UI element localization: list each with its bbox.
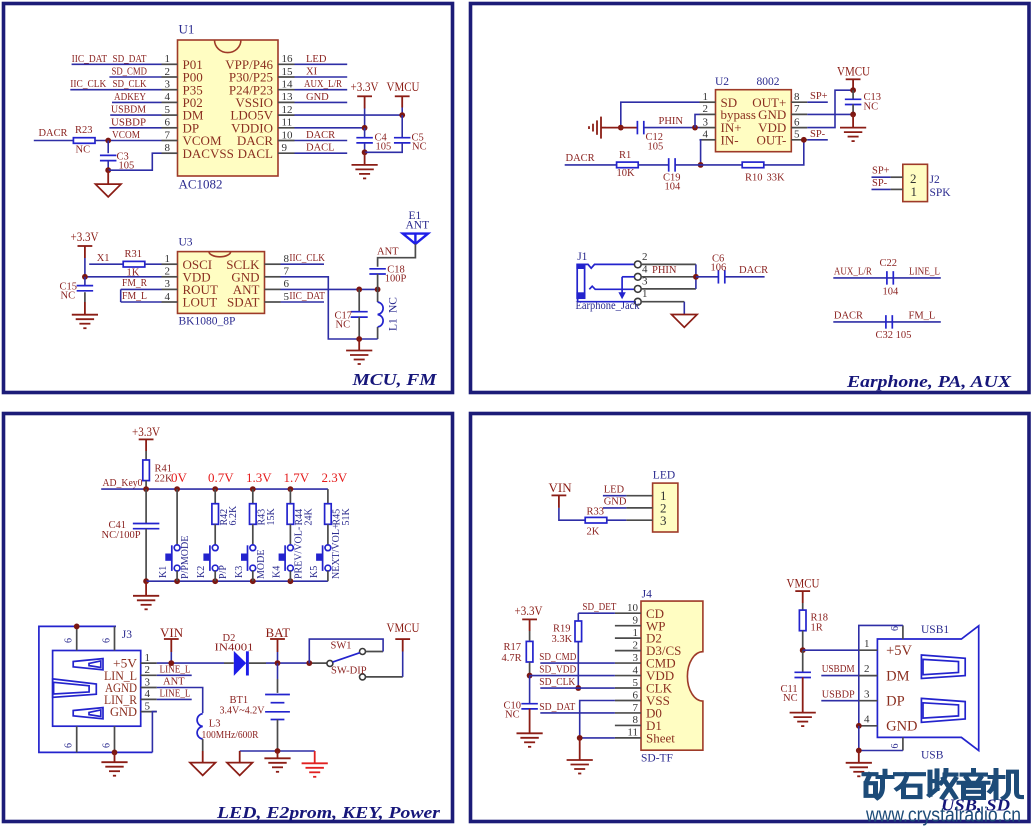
junction rail K4 — [288, 578, 294, 584]
svg-text:R19: R19 — [553, 624, 571, 635]
wire bus to R42 — [214, 489, 216, 504]
wire pin5 to gnd — [152, 712, 156, 753]
border frame panel 3 (LED,E2prom,KEY,Power) — [4, 414, 453, 822]
wire L3 to gnd — [202, 739, 204, 751]
svg-text:DACR: DACR — [834, 310, 863, 321]
wire gnd to C12 — [606, 127, 637, 129]
svg-text:Sheet: Sheet — [646, 731, 675, 746]
svg-text:IIC_CLK: IIC_CLK — [289, 253, 325, 264]
junction IN-/DACR — [698, 162, 704, 168]
svg-text:L1: L1 — [388, 318, 400, 331]
wire C17 top lead — [358, 289, 360, 311]
wire ADKEY bus — [101, 488, 328, 490]
J3 pin 5 stub — [141, 711, 157, 713]
svg-text:4: 4 — [864, 713, 870, 725]
svg-text:2: 2 — [703, 103, 709, 115]
svg-text:IN4001: IN4001 — [215, 643, 254, 654]
junction bus K1 — [174, 486, 180, 492]
svg-text:10: 10 — [627, 602, 639, 614]
junction BT1 rail — [275, 748, 281, 754]
op IC body U1 — [178, 40, 279, 176]
svg-text:LED: LED — [653, 469, 675, 481]
svg-text:105: 105 — [648, 142, 664, 153]
svg-text:NC: NC — [505, 710, 520, 721]
wire J1 pin3 right — [641, 288, 696, 290]
svg-text:51K: 51K — [341, 508, 352, 526]
wire net FM_R pin3 — [121, 288, 162, 290]
U2 pin 3 stub — [700, 127, 716, 129]
junction GND pin4 — [856, 723, 862, 729]
capacitor C22 — [886, 271, 888, 285]
svg-text:C22: C22 — [880, 258, 898, 269]
USB1 pin 1 stub — [859, 649, 878, 651]
svg-text:3: 3 — [633, 652, 639, 664]
wire net XI to R31 — [89, 263, 123, 265]
svg-text:NC: NC — [864, 101, 879, 112]
ground triangle J1 — [672, 315, 698, 328]
battery BT1 — [277, 663, 279, 679]
J1 pin 1 circle — [634, 298, 641, 305]
ground earth below C10 — [517, 732, 543, 734]
svg-text:1R: 1R — [811, 623, 823, 634]
svg-text:5: 5 — [145, 700, 151, 712]
wire +3.3V to pin2 VDD — [85, 276, 162, 278]
connector J3 shield box — [53, 651, 141, 727]
U2 pin 6 stub — [791, 127, 807, 129]
wire bus to R43 — [252, 489, 254, 504]
svg-text:PREV/VOL-: PREV/VOL- — [293, 527, 304, 579]
svg-text:R31: R31 — [125, 249, 143, 260]
svg-text:DM: DM — [886, 668, 909, 684]
svg-text:DACR: DACR — [566, 153, 595, 164]
J1 tip contact — [585, 264, 635, 268]
U2 pin 4 stub — [700, 139, 716, 141]
svg-text:LINE_L: LINE_L — [160, 689, 191, 700]
ground triangle L3 — [190, 763, 216, 776]
svg-text:AUX_L/R: AUX_L/R — [834, 266, 872, 277]
wire pin6 ANT — [281, 288, 378, 290]
svg-text:9: 9 — [633, 614, 639, 626]
svg-text:USBDP: USBDP — [822, 689, 855, 700]
svg-text:MODE: MODE — [256, 550, 267, 579]
svg-text:100MHz/600R: 100MHz/600R — [202, 730, 259, 741]
inductor L3 — [197, 714, 203, 739]
wire pin8 DACVSS to C3 — [108, 153, 161, 170]
U3 pin 4 stub — [162, 301, 178, 303]
svg-text:R33: R33 — [587, 507, 605, 518]
border frame panel 2 (Earphone,PA,AUX) — [471, 4, 1030, 393]
svg-text:2.3V: 2.3V — [322, 470, 348, 485]
U1 pin 1 stub — [162, 63, 178, 65]
junction SW1 — [306, 660, 312, 666]
junction BAT — [275, 660, 281, 666]
wire net IIC_DAT/SD_DAT pin1 — [72, 63, 162, 65]
J4 pin 1 stub — [615, 637, 641, 639]
svg-text:6.2K: 6.2K — [228, 505, 239, 526]
wire C19 to R10 — [675, 164, 742, 166]
svg-text:L3: L3 — [209, 719, 221, 730]
wire K3 to rail — [252, 571, 254, 582]
svg-text:5: 5 — [165, 104, 171, 116]
svg-text:BAT: BAT — [266, 625, 291, 640]
svg-text:K5: K5 — [309, 566, 320, 578]
J3 pin 2 stub — [141, 674, 157, 676]
wire net GND hdr — [603, 507, 627, 509]
capacitor C3 — [100, 154, 117, 156]
wire net SP+ to J2 — [872, 176, 891, 178]
ground earth J3 — [101, 761, 127, 763]
U1 pin 7 stub — [162, 140, 178, 142]
svg-text:SP-: SP- — [872, 178, 888, 189]
svg-text:3.3K: 3.3K — [552, 634, 573, 645]
svg-text:VMCU: VMCU — [387, 620, 421, 635]
svg-text:SP-: SP- — [810, 129, 826, 140]
junction gnd U3 — [356, 336, 362, 342]
junction bus K3 — [250, 486, 256, 492]
svg-text:U2: U2 — [715, 76, 729, 88]
svg-text:11: 11 — [627, 727, 638, 739]
svg-text:6: 6 — [890, 626, 901, 631]
wire BAT to SW1 — [309, 662, 327, 664]
USB1 contact trapezoid bottom — [921, 698, 965, 722]
wire net SP- to J2 — [872, 188, 891, 190]
svg-text:NEXT/VOL+: NEXT/VOL+ — [331, 523, 342, 579]
svg-text:R17: R17 — [504, 642, 522, 653]
svg-text:8: 8 — [633, 714, 639, 726]
wire pin2 bypass down — [695, 114, 700, 127]
U3 pin 2 stub — [162, 276, 178, 278]
svg-text:6: 6 — [165, 117, 171, 129]
wire net ADKEY pin4 — [112, 101, 162, 103]
svg-text:USBDM: USBDM — [111, 105, 147, 116]
svg-text:SD_DAT: SD_DAT — [113, 54, 148, 65]
svg-text:ADKEY: ADKEY — [114, 92, 146, 103]
wire net SD_CMD — [540, 662, 615, 664]
svg-text:+3.3V: +3.3V — [515, 603, 544, 618]
wire gnd stem below C13 — [852, 114, 854, 127]
wire C10 bottom lead — [529, 709, 531, 733]
J3 pin 3 stub — [141, 687, 157, 689]
USB1 bottom bracket — [859, 726, 903, 751]
earphone jack J1 body — [577, 264, 584, 298]
svg-text:P/PMODE: P/PMODE — [180, 536, 191, 579]
junction C13/GND wire — [850, 112, 856, 118]
ground earth below C4 — [352, 164, 378, 166]
svg-text:R23: R23 — [75, 125, 93, 136]
U2 pin 5 stub — [791, 139, 807, 141]
J3 contact trapezoid bottom — [73, 708, 103, 719]
junction J1/C6 — [693, 274, 699, 280]
wire R23 to pin7 VCOM — [95, 140, 162, 142]
resistor R45 — [325, 504, 332, 525]
svg-text:J1: J1 — [577, 251, 587, 263]
svg-text:+5V: +5V — [886, 643, 912, 659]
svg-text:7: 7 — [633, 702, 639, 714]
svg-text:R10: R10 — [745, 173, 763, 184]
wire net FM_L pin4 — [121, 301, 162, 303]
capacitor C32 — [885, 315, 887, 329]
wire VMCU down to C5 — [401, 115, 403, 138]
svg-text:1: 1 — [165, 53, 171, 65]
wire pin12 to VMCU — [295, 114, 403, 116]
wire net LED pin16 — [295, 63, 348, 65]
border frame panel 4 (USB,SD) — [471, 414, 1030, 822]
junction pin12/VMCU — [399, 112, 405, 118]
J3 shell pin top-right — [114, 626, 116, 650]
svg-text:4.7R: 4.7R — [502, 653, 522, 664]
U3 pin 8 stub — [265, 263, 281, 265]
wire pin1 SD loop — [621, 102, 700, 127]
ground earth below C13 — [840, 127, 866, 129]
connector LED header body — [653, 483, 678, 532]
junction bus R41 — [143, 486, 149, 492]
wire FM_R/FM_L left edge — [120, 289, 122, 302]
U3 pin 5 stub — [265, 301, 281, 303]
svg-text:33K: 33K — [767, 173, 786, 184]
U3 pin 7 stub — [265, 276, 281, 278]
U1 pin 13 stub — [278, 101, 295, 103]
svg-text:VIN: VIN — [160, 625, 184, 640]
svg-text:106: 106 — [711, 263, 727, 274]
LED hdr pin3 stub — [626, 519, 652, 521]
U3 pin 1 stub — [162, 263, 178, 265]
wire net SD_CLK — [540, 687, 615, 689]
wire antenna to C18 — [378, 244, 416, 267]
svg-text:USBDM: USBDM — [822, 664, 856, 675]
svg-text:XI: XI — [306, 67, 318, 78]
wire SD_DET corner to R19 — [577, 613, 579, 621]
wire net IIC_CLK pin8 — [281, 263, 325, 265]
wire R10 up to pin5 OUT- — [764, 140, 804, 165]
connector J3 outer bracket — [39, 626, 152, 752]
svg-text:3: 3 — [145, 676, 151, 688]
svg-text:DACR: DACR — [39, 128, 68, 139]
J3 shell pin bottom-left — [76, 726, 78, 752]
wire C15 top lead — [84, 277, 86, 286]
resistor R10 — [742, 162, 764, 168]
svg-text:GND: GND — [110, 704, 137, 719]
svg-text:2: 2 — [864, 663, 870, 675]
J1 pin 2 circle — [634, 261, 641, 268]
LED hdr pin1 stub — [626, 495, 652, 497]
svg-text:6: 6 — [284, 278, 290, 290]
J4 pin 6 stub — [615, 699, 641, 701]
svg-text:1: 1 — [864, 638, 870, 650]
wire pin7 GND to C13 — [807, 113, 853, 115]
J4 pin 5 stub — [615, 687, 641, 689]
svg-text:4: 4 — [165, 91, 171, 103]
junction C3/DACVSS — [105, 167, 111, 173]
wire net DACL pin9 — [295, 152, 348, 154]
svg-text:K3: K3 — [234, 566, 245, 578]
wire SW1 to VMCU — [366, 676, 403, 678]
svg-text:DP: DP — [886, 694, 905, 710]
junction R18/+5V — [800, 647, 806, 653]
wire VIN to R33 — [559, 508, 586, 520]
svg-text:AUX_L/R: AUX_L/R — [304, 79, 342, 90]
U1 pin 5 stub — [162, 114, 178, 116]
U1 pin 12 stub — [278, 114, 295, 116]
svg-text:4: 4 — [633, 664, 639, 676]
wire AUX_L/R to LINE_L — [833, 277, 941, 279]
switch K1 — [171, 545, 173, 571]
U1 pin 8 stub — [162, 152, 178, 154]
capacitor C18 — [369, 268, 386, 270]
svg-text:+3.3V: +3.3V — [132, 424, 161, 439]
wire J1 pin1 left — [577, 298, 579, 302]
svg-text:1: 1 — [165, 253, 171, 265]
ground earth below C11 — [790, 712, 816, 714]
wire C13 bottom lead — [852, 104, 854, 114]
svg-text:K4: K4 — [271, 566, 282, 578]
svg-text:10: 10 — [282, 129, 294, 141]
svg-text:12: 12 — [282, 104, 293, 116]
junction Sheet gnd — [577, 735, 583, 741]
J1 pin 3 circle — [634, 286, 641, 293]
wire J1 pin2 right — [641, 263, 696, 265]
U3 pin 6 stub — [265, 288, 281, 290]
wire net SP+ pin8 — [807, 101, 828, 103]
junction J3 gnd — [112, 750, 118, 756]
svg-text:GND: GND — [306, 92, 329, 103]
U1 pin 2 stub — [162, 76, 178, 78]
wire BT1 to bottom rail — [277, 720, 279, 752]
U2 pin 1 stub — [700, 101, 716, 103]
wire C17 bottom lead — [358, 317, 360, 339]
U1 pin 14 stub — [278, 89, 295, 91]
junction rail K3 — [250, 578, 256, 584]
USB1 pin 3 stub — [859, 700, 878, 702]
svg-text:GND: GND — [604, 497, 627, 508]
wire pin11 to +3.3V/C4 — [295, 127, 365, 129]
wire C11 top lead — [802, 650, 804, 672]
svg-text:FM_L: FM_L — [122, 291, 147, 302]
svg-text:VMCU: VMCU — [837, 63, 871, 78]
J3 pin 1 stub — [141, 662, 157, 664]
svg-text:+3.3V: +3.3V — [71, 229, 100, 244]
wire bus to K1 — [176, 489, 178, 545]
svg-text:6: 6 — [794, 116, 800, 128]
op IC body U3 — [178, 252, 265, 314]
wire R44 to K4 — [289, 524, 291, 545]
wire bus to R44 — [289, 489, 291, 504]
capacitor C41 — [133, 523, 160, 525]
svg-text:9: 9 — [282, 142, 288, 154]
capacitor C4 — [356, 137, 373, 139]
ground earth rotated left — [600, 117, 602, 139]
switch K4 — [284, 545, 286, 571]
wire gnd stem USB — [858, 751, 860, 763]
svg-text:0V: 0V — [171, 470, 188, 485]
capacitor C12 — [636, 121, 638, 135]
switch K5 — [322, 545, 324, 571]
svg-text:LINE_L: LINE_L — [909, 266, 940, 277]
svg-text:SP+: SP+ — [810, 91, 828, 102]
junction pin11/+3.3V — [362, 125, 368, 131]
wire net SD_DAT — [540, 712, 615, 714]
antenna E1 — [403, 234, 428, 244]
svg-text:2: 2 — [165, 266, 171, 278]
svg-text:6: 6 — [101, 743, 112, 748]
capacitor C10 — [521, 703, 538, 705]
svg-text:SD_CMD: SD_CMD — [112, 67, 148, 78]
op IC U1 notch — [215, 40, 241, 53]
resistor R23 — [73, 138, 95, 144]
wire net AUX_L/R pin14 — [295, 89, 348, 91]
svg-text:NC: NC — [76, 145, 91, 156]
wire R41 to bus — [145, 481, 147, 490]
wire K5 to rail — [327, 571, 329, 582]
svg-text:104: 104 — [883, 287, 900, 298]
svg-text:U3: U3 — [179, 237, 193, 249]
ground earth keypad — [133, 595, 159, 597]
wire net GND pin13 — [295, 101, 348, 103]
LED hdr pin2 stub — [626, 507, 652, 509]
J1 ring contact — [589, 286, 634, 289]
svg-text:VCOM: VCOM — [112, 130, 141, 141]
wire C4 top lead — [364, 128, 366, 138]
svg-text:1: 1 — [633, 627, 639, 639]
wire D2 to BAT — [249, 662, 266, 664]
svg-text:104: 104 — [665, 182, 682, 193]
svg-text:5: 5 — [633, 677, 639, 689]
wire net USBDM pin5 — [110, 114, 161, 116]
resistor R44 — [287, 504, 294, 525]
svg-text:2K: 2K — [587, 527, 600, 538]
svg-text:R1: R1 — [619, 150, 631, 161]
svg-text:1: 1 — [911, 184, 918, 199]
USB1 pin 2 stub — [859, 675, 878, 677]
switch K2 — [209, 545, 211, 571]
svg-text:0.7V: 0.7V — [208, 470, 234, 485]
J4 pin 8 stub — [615, 724, 641, 726]
ground earth below C15 — [72, 314, 98, 316]
J4 pin 3 stub — [615, 662, 641, 664]
wire net XI pin15 — [295, 76, 348, 78]
svg-text:K2: K2 — [196, 566, 207, 578]
svg-text:AC1082: AC1082 — [179, 177, 223, 192]
U1 pin 16 stub — [278, 63, 295, 65]
svg-text:NC/100P: NC/100P — [102, 530, 141, 541]
wire R43 to K3 — [252, 524, 254, 545]
svg-text:FM_R: FM_R — [122, 278, 147, 289]
wire net USBDP pin6 — [109, 127, 161, 129]
svg-text:C32 105: C32 105 — [876, 330, 912, 341]
svg-text:USBDP: USBDP — [111, 117, 146, 128]
junction rail K2 — [212, 578, 218, 584]
junction bus K2 — [212, 486, 218, 492]
junction VMCU/C13 — [850, 87, 856, 93]
svg-text:15K: 15K — [266, 508, 277, 526]
U1 pin 15 stub — [278, 76, 295, 78]
svg-text:7: 7 — [165, 129, 171, 141]
J3 contact trapezoid top — [73, 659, 103, 670]
wire L1 bottom to gnd — [359, 338, 377, 340]
wire net DACR to R1 — [565, 164, 617, 166]
svg-text:3: 3 — [864, 688, 870, 700]
J3 pin 4 stub — [141, 698, 157, 700]
svg-text:24K: 24K — [303, 508, 314, 526]
U1 pin 4 stub — [162, 101, 178, 103]
J4 pin 4 stub — [615, 675, 641, 677]
wire +5V to VIN/D2 — [157, 662, 224, 664]
svg-text:105: 105 — [376, 142, 392, 153]
svg-text:2: 2 — [642, 251, 648, 263]
wire gnd stem below C3 — [107, 170, 109, 184]
svg-text:6: 6 — [64, 743, 75, 748]
svg-text:SD_CLK: SD_CLK — [539, 677, 575, 688]
svg-text:NC: NC — [336, 320, 351, 331]
